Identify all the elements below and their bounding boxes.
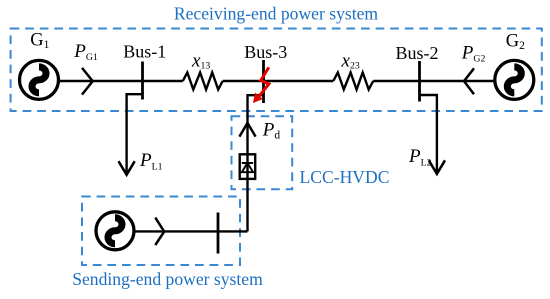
bus bar sending-end: [217, 213, 220, 254]
svg-text:Bus-3: Bus-3: [244, 42, 287, 62]
converter valve U1 (LCC thyristor): [240, 154, 256, 179]
generator G2: [495, 60, 534, 99]
wire: load branch from Bus-2: [420, 95, 437, 173]
box: LCC-HVDC (dashed): [232, 116, 293, 189]
box: sending-end power system (dashed): [82, 197, 240, 266]
svg-text:Bus-1: Bus-1: [123, 42, 166, 62]
arrow chevron: P_L2 load: [429, 160, 445, 174]
bus bar Bus-1: [141, 62, 144, 100]
fault lightning bolt at Bus-3: [254, 67, 269, 102]
wire: load branch from Bus-1: [127, 94, 143, 174]
arrow chevron: P_L1 load: [119, 161, 135, 175]
wire: main transmission line G1 to x13: [59, 80, 183, 82]
arrow chevron: P_G1 flow: [82, 68, 93, 95]
arrow chevron: P_G2 flow: [464, 68, 474, 94]
bus bar Bus-2: [418, 61, 421, 102]
resistor x23: [333, 73, 373, 90]
wire: HVDC link from Bus-3 down to sending-end line: [248, 95, 264, 231]
svg-text:Bus-2: Bus-2: [395, 43, 438, 63]
wire: sending-end line: [134, 230, 248, 232]
svg-text:LCC-HVDC: LCC-HVDC: [300, 167, 390, 187]
generator G3 (sending-end): [96, 212, 134, 250]
wire: x13 to x23 through Bus-3: [223, 80, 334, 82]
resistor x13: [183, 73, 223, 90]
arrow chevron: P_d flow up: [239, 123, 255, 137]
bus bar Bus-3: [262, 60, 265, 103]
wire: x23 to G2: [373, 80, 495, 82]
svg-text:Sending-end power system: Sending-end power system: [72, 269, 263, 289]
arrow chevron: sending-end flow: [155, 218, 164, 245]
svg-text:Receiving-end power system: Receiving-end power system: [174, 4, 379, 24]
box: receiving-end power system (dashed): [11, 29, 542, 112]
generator G1: [20, 60, 59, 99]
